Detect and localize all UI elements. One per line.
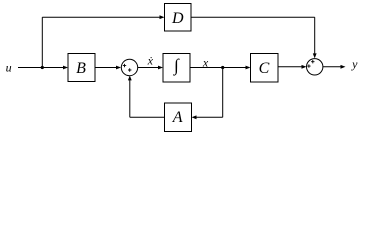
svg-text:C: C: [259, 60, 270, 77]
svg-text:B: B: [76, 60, 86, 77]
svg-text:ẋ: ẋ: [147, 54, 154, 68]
svg-text:x: x: [202, 56, 209, 70]
svg-text:u: u: [6, 60, 12, 74]
svg-text:D: D: [171, 10, 184, 27]
svg-text:A: A: [172, 109, 183, 126]
svg-text:y: y: [351, 57, 358, 71]
